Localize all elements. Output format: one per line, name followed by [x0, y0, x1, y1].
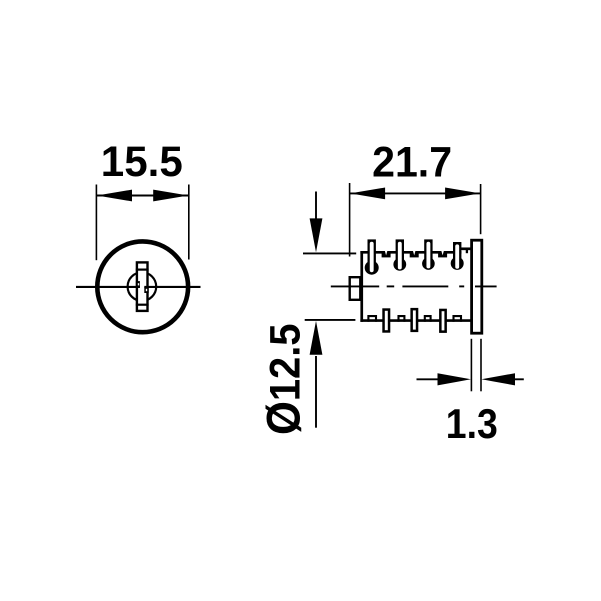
- bottom pin 2: [412, 309, 417, 331]
- top pin 2: [393, 239, 406, 270]
- notch wall spur before flange: [466, 249, 468, 253]
- svg-text:21.7: 21.7: [372, 138, 452, 186]
- dim 15.5 right arrowhead: [153, 190, 188, 202]
- dim 15.5 left extension line: [95, 185, 97, 261]
- left nub: [350, 277, 361, 300]
- dim 12.5 up arrow: [310, 321, 323, 428]
- dim 21.7 right extension line: [480, 184, 482, 234]
- keyway right notch: [144, 287, 148, 293]
- bottom bump 1: [368, 316, 376, 322]
- svg-text:Ø12.5: Ø12.5: [257, 324, 310, 436]
- top notch 2: [410, 251, 419, 257]
- dim 1.3 left arrow: [417, 373, 471, 385]
- dim 12.5 down arrow: [310, 192, 323, 253]
- keyway slot body: [137, 262, 148, 311]
- svg-text:1.3: 1.3: [446, 400, 498, 447]
- body left edge: [360, 251, 363, 322]
- bottom bump 3: [425, 316, 431, 322]
- body top edge: [360, 251, 461, 254]
- body bottom edge: [360, 319, 471, 322]
- dim 1.3 left extension line: [470, 339, 472, 392]
- dim 15.5 right extension line: [188, 185, 190, 260]
- dim 21.7 line: [350, 192, 481, 194]
- keyway bottom divider line: [136, 304, 149, 306]
- top pin 1: [365, 239, 379, 274]
- dim 12.5 bottom extension line: [305, 319, 356, 321]
- plug small circle: [128, 272, 157, 301]
- dim 15.5 line: [96, 195, 188, 197]
- keyway top divider line: [136, 269, 149, 271]
- dim 12.5 top extension line: [303, 252, 356, 254]
- dim 1.3 right arrow: [482, 373, 524, 385]
- bottom pin 1: [384, 310, 390, 332]
- front view horizontal center line left segment: [76, 286, 140, 288]
- flange disc: [472, 240, 482, 333]
- dim 1.3 right extension line: [480, 339, 482, 392]
- front view horizontal center line right segment: [144, 286, 200, 288]
- top notch 3: [438, 251, 447, 257]
- front face outer circle: [97, 241, 188, 332]
- bottom bump 2: [399, 316, 405, 322]
- dim 21.7 left extension line: [349, 183, 351, 257]
- dim 15.5 left arrowhead: [97, 190, 132, 202]
- bottom bump 4: [454, 316, 462, 322]
- top pin 4: [451, 242, 464, 270]
- svg-text:15.5: 15.5: [101, 138, 183, 186]
- keyway left notch: [136, 281, 140, 288]
- dim 21.7 right arrowhead: [445, 188, 480, 200]
- top pin 3: [422, 239, 435, 270]
- body top raised shoulder near flange: [461, 247, 472, 250]
- side view dash-dot center line: [331, 285, 497, 287]
- dim 21.7 left arrowhead: [350, 188, 385, 200]
- top notch 1: [382, 251, 391, 257]
- bottom pin 3: [440, 310, 445, 332]
